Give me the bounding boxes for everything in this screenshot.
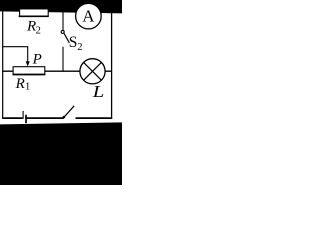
label R2: [26, 18, 41, 36]
lamp L: circle: [80, 59, 105, 84]
lamp X stroke 2: [84, 62, 102, 80]
switch S2 upper lead: [62, 12, 64, 30]
wire: bottom right segment: [76, 117, 113, 119]
slider arrowhead P: [26, 61, 30, 66]
svg-text:2: 2: [36, 25, 41, 36]
wire: bottom middle segment: [27, 117, 64, 119]
svg-text:S: S: [69, 34, 78, 51]
switch S2 contact circle: [61, 30, 64, 33]
svg-text:L: L: [92, 82, 105, 101]
bottom switch blade: [64, 106, 74, 117]
wire: left vertical: [2, 11, 4, 118]
wire: middle horizontal (R1/lamp row): [2, 70, 111, 72]
battery long thin plate: [22, 111, 24, 119]
resistor R2 box: [20, 9, 49, 16]
white background: [0, 0, 122, 185]
rheostat R1 thick bottom border: [13, 74, 46, 76]
svg-text:1: 1: [25, 82, 30, 93]
lamp X stroke 1: [84, 62, 102, 80]
rheostat R1 box: [13, 67, 45, 75]
top black scan band (acts as top wire): [0, 0, 122, 13]
label R1: [15, 76, 31, 93]
svg-text:A: A: [82, 6, 95, 25]
switch S2 blade: [64, 33, 69, 43]
wire: right vertical: [111, 13, 113, 119]
wire: slider feed from left wire: [3, 47, 28, 62]
svg-text:2: 2: [77, 42, 82, 53]
label S2: [69, 34, 83, 53]
bottom black scan band: [0, 122, 122, 185]
resistor R2 thick bottom border: [19, 15, 49, 17]
battery short thick plate: [25, 115, 27, 123]
svg-text:P: P: [32, 52, 42, 68]
wire: bottom left segment: [2, 117, 22, 119]
bottom switch pivot dot: [63, 116, 66, 119]
switch S2 lower lead: [62, 47, 64, 72]
ammeter U: circle: [76, 3, 102, 29]
svg-text:R: R: [15, 76, 25, 92]
